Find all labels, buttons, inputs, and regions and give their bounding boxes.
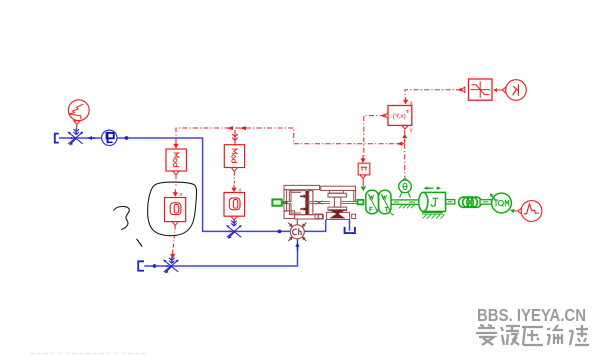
torque signal source W2 [514,201,542,222]
char ye [501,326,520,345]
shaft stub spring right [480,200,492,205]
wire feedback theta to mod boxes [176,128,405,144]
pump left foot [284,211,295,219]
green stub [282,202,285,204]
pump top-left bar [284,185,320,189]
friction drum WF [366,190,379,213]
pressure gauge P1 [102,130,117,145]
swash T cap [330,191,344,194]
chamber arrows [300,194,306,198]
svg-text:(Y,x): (Y,x) [393,113,406,120]
variable orifice valve V2 [226,225,242,239]
faint clipped artifact bottom-left [30,353,150,355]
hand-drawn blob around U1 [148,182,197,236]
Mod block M1 [166,149,187,175]
wire saturation to f(Y,x) [405,90,461,99]
piston [305,191,308,215]
blue arrow into chamber [295,242,299,250]
wire Ch right to pump port [304,220,325,232]
svg-text:Y: Y [409,128,413,134]
pump bottom bar [295,215,319,219]
rod tip [285,202,287,204]
green connector right [358,200,364,205]
swash tray [327,212,350,219]
shaft stub J right [446,200,455,204]
tank T2 [138,261,144,270]
wire M2 to converter U2 [233,172,235,184]
wire main hydraulic line (pump to valve block) [59,138,290,231]
angle sensor theta [399,178,415,208]
signal source W1 (piecewise waveform) [68,100,89,125]
svg-text:BBS. IYEYA.CN: BBS. IYEYA.CN [477,305,586,325]
wire U2 to valve V2 [233,220,235,222]
wire M1 to converter U1 [175,175,177,185]
pump cylinder wall [289,191,291,202]
converter block U1 [165,198,186,226]
pump right wall [354,191,356,202]
arrow into Mod1 [173,140,178,149]
friction drum WT [379,190,394,215]
piston plate [309,191,313,215]
wire junction to theta sensor [404,144,406,177]
swash bowtie [330,210,345,218]
swash web [334,197,340,207]
tank T3 [345,227,355,233]
swash top flange [328,193,347,197]
shaft bar theta section [391,200,420,204]
char lun [547,325,563,345]
variable orifice valve V1 [68,132,84,146]
wire pump drain to tank T3 [349,220,351,231]
pump top-right bar [321,186,356,190]
pump left wall [284,190,287,212]
junction dot [153,264,157,268]
swash side blocks [315,214,322,219]
hand-drawn tick [137,239,143,247]
char tan [569,325,589,345]
wire U1 to valve V3 [173,226,175,251]
pump chamber [291,191,305,215]
rod neck [316,201,323,205]
watermark chinese characters (stroke approximation) [476,325,589,345]
wire lower hydraulic line [144,239,297,266]
variable orifice valve V3 [163,260,179,274]
chamber Ch [288,219,306,241]
wire signal W1 to valve V1 [76,125,78,129]
gain k [493,80,526,101]
swash bottom flange [328,207,347,210]
char ai [476,325,497,345]
Mod block M2 [224,145,244,172]
saturation block [461,79,492,100]
green connector left [272,199,281,205]
Y feedback vertical [404,130,406,144]
junction dot [278,230,282,234]
hand-drawn squiggle [114,207,130,230]
multiplier torque box [358,156,370,192]
torque meter TQM [490,193,515,213]
char ya [522,327,543,345]
flow arrow [88,136,96,140]
converter block U2 [224,193,245,221]
tank T1 [55,134,59,143]
spring coupling [459,197,482,208]
inertia J [419,186,446,218]
wire f output to multiplier [364,116,385,158]
junction dot [125,136,129,140]
pump rod [282,202,358,204]
junction arrows at Mod2 tap [227,126,234,130]
function block f(Y,x) [385,106,412,130]
